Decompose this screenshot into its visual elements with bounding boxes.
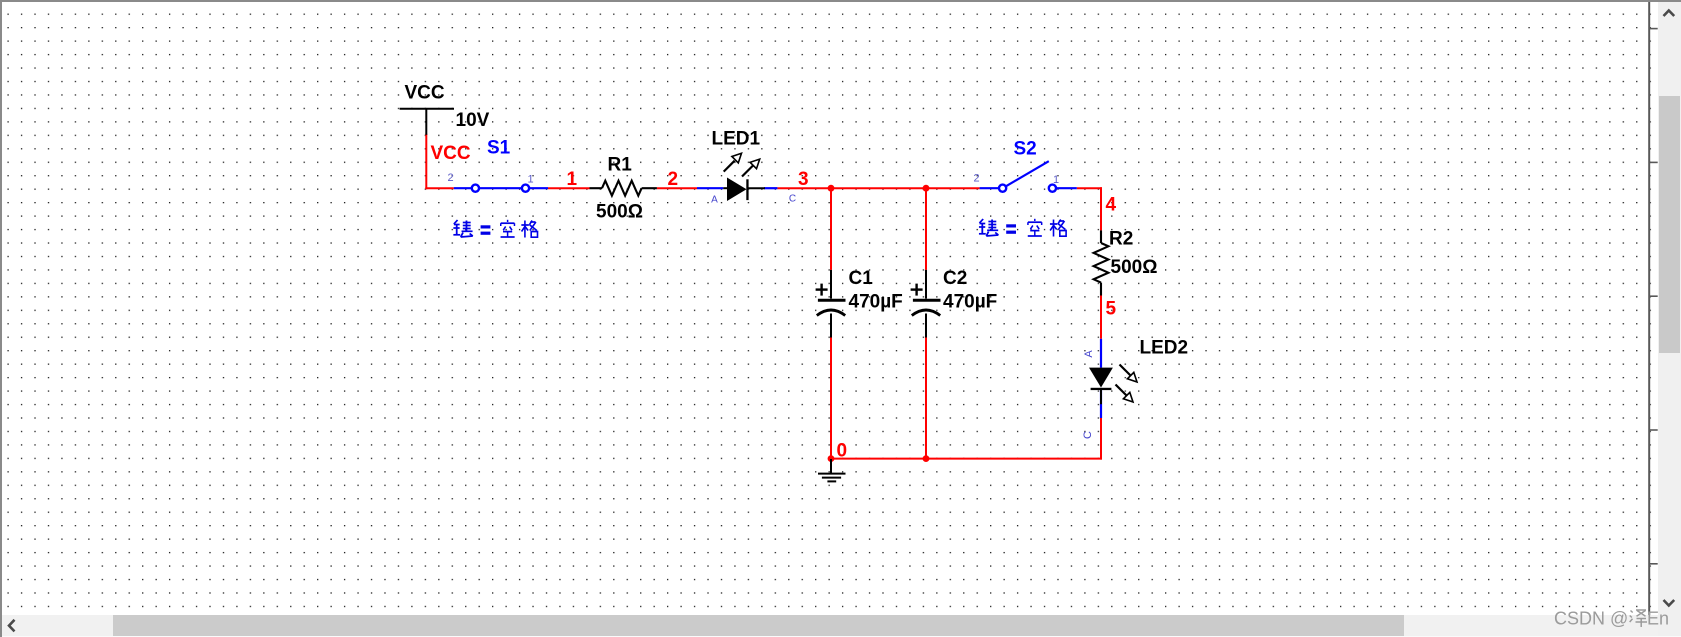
svg-text:3: 3	[798, 169, 809, 190]
svg-text:5: 5	[1106, 299, 1117, 320]
svg-text:R1: R1	[608, 155, 633, 176]
svg-text:VCC: VCC	[431, 143, 471, 164]
svg-text:1: 1	[1053, 174, 1059, 186]
svg-text:LED2: LED2	[1140, 338, 1189, 359]
svg-text:470µF: 470µF	[943, 291, 997, 312]
svg-text:1: 1	[567, 169, 578, 190]
svg-text:S1: S1	[487, 138, 511, 159]
svg-text:C: C	[1082, 431, 1094, 439]
svg-text:500Ω: 500Ω	[596, 202, 643, 223]
svg-text:CSDN @: CSDN @	[1554, 609, 1628, 629]
svg-text:500Ω: 500Ω	[1111, 257, 1158, 278]
svg-text:C2: C2	[943, 268, 967, 289]
svg-text:C1: C1	[849, 268, 874, 289]
svg-text:En: En	[1647, 609, 1669, 629]
svg-text:A: A	[711, 195, 718, 206]
svg-text:2: 2	[447, 172, 453, 184]
svg-text:LED1: LED1	[712, 129, 761, 150]
svg-text:A: A	[1083, 350, 1095, 358]
svg-text:10V: 10V	[456, 110, 490, 131]
svg-text:4: 4	[1106, 195, 1117, 216]
svg-text:2: 2	[973, 173, 979, 185]
svg-text:1: 1	[527, 174, 533, 186]
svg-text:S2: S2	[1014, 139, 1037, 160]
svg-text:R2: R2	[1109, 229, 1133, 250]
svg-text:VCC: VCC	[405, 83, 445, 104]
svg-text:2: 2	[668, 169, 679, 190]
svg-text:470µF: 470µF	[849, 291, 903, 312]
svg-text:C: C	[789, 194, 796, 205]
svg-text:0: 0	[837, 441, 848, 462]
